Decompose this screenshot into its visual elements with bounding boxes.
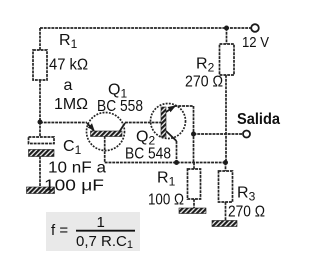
svg-text:100 μF: 100 μF <box>44 178 104 195</box>
transistor Q1 circle <box>87 113 125 151</box>
svg-text:1: 1 <box>97 214 105 231</box>
transistor Q1 emitter arrow <box>88 123 95 130</box>
resistor R1 (100 ohm) body <box>188 169 201 199</box>
wire R2 top lead <box>226 28 228 44</box>
svg-text:270 Ω: 270 Ω <box>185 74 223 91</box>
svg-text:270 Ω: 270 Ω <box>228 204 265 221</box>
wire R1b bottom lead <box>193 199 195 208</box>
wire bottom rail <box>105 162 226 164</box>
svg-text:10 nF a: 10 nF a <box>48 160 106 177</box>
junction node Q2 emitter / bottom rail <box>174 160 179 165</box>
svg-text:1MΩ: 1MΩ <box>54 96 88 113</box>
wire R2 bottom to rail <box>225 75 227 163</box>
junction node salida <box>191 132 196 137</box>
junction node A (R1/C1/Q1) <box>38 120 43 125</box>
resistor R2 body <box>220 44 235 75</box>
svg-text:BC 558: BC 558 <box>97 98 143 115</box>
ground under R1b <box>179 208 206 214</box>
transistor Q1 collector diagonal <box>120 123 126 132</box>
ground under C1 <box>27 187 55 194</box>
svg-text:47 kΩ: 47 kΩ <box>49 57 88 74</box>
wire top rail <box>40 27 251 29</box>
capacitor C1 top plate <box>29 137 55 144</box>
wire node A to Q1 emitter <box>40 122 87 124</box>
wire R3 top lead <box>225 163 227 172</box>
transistor Q2 bottom diagonal <box>166 131 177 141</box>
transistor Q1 emitter diagonal <box>87 123 94 131</box>
svg-text:f =: f = <box>51 222 68 239</box>
capacitor C1 bottom plate (hatched) <box>29 150 55 157</box>
wire left vertical upper (top rail to R1) <box>39 28 41 50</box>
svg-text:a: a <box>64 77 73 94</box>
terminal salida <box>243 131 250 138</box>
junction node bottom rail / R2-R3 <box>223 160 228 165</box>
resistor R1 (47k-1M) body <box>33 50 47 80</box>
resistor R3 body <box>219 171 233 202</box>
wire R3 bottom lead <box>225 202 227 221</box>
wire left vertical lower (R1 to C1) <box>39 80 41 137</box>
transistor Q1 base bar <box>91 131 123 137</box>
wire C1 bottom plate to ground <box>39 157 41 187</box>
transistor Q2 emitter arrow <box>168 105 177 112</box>
wire Q2 top lead to salida node <box>175 106 194 163</box>
svg-text:12 V: 12 V <box>242 34 269 51</box>
ground under R3 <box>212 221 237 227</box>
terminal 12V <box>251 24 259 32</box>
wire Q1 collector to Q2 base <box>125 122 162 124</box>
transistor Q2 circle <box>151 104 186 139</box>
svg-text:0,7 R.C1: 0,7 R.C1 <box>76 233 133 251</box>
wire salida output <box>194 133 243 135</box>
transistor Q1 base lead down <box>104 136 106 163</box>
junction node top rail / R2 <box>224 26 229 31</box>
formula f = 1 / 0,7 R.C1 <box>51 214 135 251</box>
wire R1b top lead <box>193 163 195 170</box>
svg-text:Salida: Salida <box>237 111 280 128</box>
transistor Q2 top (emitter) diagonal <box>165 106 176 113</box>
wire Q2 bottom lead down <box>176 141 178 163</box>
formula background <box>46 212 140 251</box>
svg-text:100 Ω: 100 Ω <box>148 192 184 209</box>
svg-text:BC 548: BC 548 <box>125 146 171 163</box>
transistor Q2 base bar <box>161 107 166 137</box>
